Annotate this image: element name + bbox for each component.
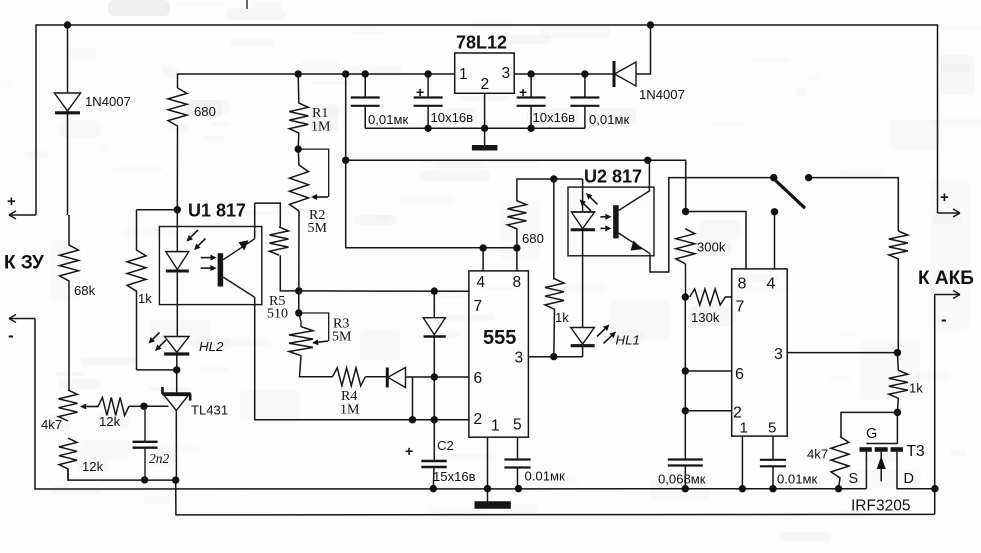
label 12k (99, 414, 121, 429)
pin 5 (768, 420, 776, 437)
diode 1N4007 (right) (614, 25, 651, 87)
svg-text:4: 4 (477, 274, 486, 291)
svg-text:7: 7 (736, 299, 745, 316)
svg-text:510: 510 (267, 307, 288, 322)
svg-text:+: + (519, 84, 527, 100)
label 4k7 (41, 417, 62, 432)
wire (298, 211, 300, 291)
diode (R4 output) (365, 368, 469, 388)
terminal - (K AKB) (935, 291, 960, 330)
svg-text:D: D (904, 471, 914, 487)
capacitor 10x16v (output) (517, 74, 546, 128)
pin 5 (513, 417, 522, 434)
label R1 (311, 106, 331, 135)
svg-text:5: 5 (768, 420, 776, 437)
diode (pins 7-6) (423, 291, 446, 420)
wire (412, 377, 414, 420)
label TL431 (191, 403, 228, 418)
wire (68, 469, 176, 480)
node junction (550, 175, 557, 182)
svg-text:1N4007: 1N4007 (639, 87, 685, 102)
label R4 (340, 389, 360, 418)
resistor (AKB+) (889, 231, 908, 353)
node junction (342, 157, 349, 164)
resistor 12k (vertical) (59, 438, 77, 480)
svg-text:1k: 1k (909, 381, 923, 396)
svg-text:1k: 1k (138, 291, 152, 306)
label 680 (522, 231, 544, 246)
wire (346, 160, 686, 211)
pin 3 (774, 346, 783, 363)
node junction (484, 485, 491, 492)
svg-text:0,01мк: 0,01мк (589, 112, 629, 127)
wire (365, 127, 585, 129)
svg-text:+: + (940, 189, 949, 206)
wire (298, 291, 300, 313)
node junction (682, 293, 689, 300)
svg-text:1N4007: 1N4007 (85, 94, 131, 109)
transistor T3 body arrow (877, 452, 886, 482)
svg-text:5M: 5M (308, 221, 328, 236)
node junction (581, 70, 588, 77)
svg-text:6: 6 (474, 370, 483, 387)
wire (300, 356, 333, 377)
wire (487, 437, 489, 501)
switch lever (775, 180, 806, 209)
label 1k (138, 291, 152, 306)
wire (255, 203, 281, 227)
node junction (424, 125, 431, 132)
node junction (770, 174, 777, 181)
wire (686, 212, 746, 269)
wire (176, 305, 178, 337)
svg-text:3: 3 (502, 65, 511, 82)
svg-text:HL1: HL1 (616, 333, 640, 348)
svg-text:8: 8 (513, 274, 522, 291)
svg-text:S: S (849, 471, 859, 487)
svg-text:7: 7 (474, 298, 483, 315)
svg-text:1: 1 (491, 418, 500, 435)
svg-text:130k: 130k (691, 310, 720, 325)
svg-text:1: 1 (740, 420, 748, 437)
svg-text:12k: 12k (82, 459, 104, 474)
resistor 12k (horizontal) (96, 397, 144, 415)
node junction (513, 244, 520, 251)
regulator 78L12 (455, 53, 515, 93)
wire (514, 73, 614, 75)
shunt reference TL431 (162, 387, 191, 480)
wire (896, 353, 899, 371)
label K ZU (4, 253, 44, 274)
node junction (647, 21, 654, 28)
node junction (362, 70, 369, 77)
svg-text:6: 6 (735, 366, 744, 383)
wire (841, 412, 897, 436)
resistor 1k (U1) (127, 210, 146, 370)
pin 8 (513, 274, 522, 291)
transistor T3 source lead (865, 452, 867, 489)
node junction (141, 476, 148, 483)
svg-text:IRF3205: IRF3205 (851, 498, 910, 515)
node junction (682, 367, 689, 374)
label HL2 (199, 339, 224, 354)
label R5 (267, 294, 288, 322)
wire (787, 352, 897, 354)
ground (472, 145, 498, 151)
label 4k7 (807, 447, 828, 462)
svg-text:1: 1 (459, 66, 468, 83)
LED U2 (571, 179, 595, 231)
svg-text:15х16в: 15х16в (433, 469, 476, 484)
svg-text:T3: T3 (907, 443, 925, 460)
resistor 1k (555 out) (545, 179, 564, 357)
node junction (515, 485, 522, 492)
pin 2 (733, 405, 742, 422)
label R2 (308, 208, 328, 236)
label T3 (907, 443, 925, 460)
label 68k (74, 283, 96, 298)
LED HL2 (164, 337, 189, 370)
resistor 680 (U2) (507, 179, 582, 248)
U1 collector wire (254, 203, 256, 239)
wire (137, 369, 177, 371)
resistor R1 1M (289, 74, 308, 149)
svg-text:3: 3 (774, 346, 783, 363)
resistor R4 1M (333, 368, 366, 386)
terminal + (K ZU) (7, 193, 36, 219)
label 0,01mk (589, 112, 629, 127)
LED U1 (166, 252, 189, 305)
svg-text:78L12: 78L12 (456, 33, 507, 53)
node junction (771, 208, 778, 215)
resistor 4k7 (gate-source) (831, 437, 849, 489)
wire (35, 319, 866, 490)
node junction (431, 287, 438, 294)
U2 phototransistor (616, 191, 650, 254)
wire (137, 209, 178, 211)
transistor T3 channel (860, 447, 903, 452)
U1 light arrows (201, 255, 217, 272)
capacitor C2 15x16v (405, 420, 447, 489)
node junction (172, 476, 179, 483)
optocoupler U2 817 box (568, 187, 654, 256)
resistor 1k (gate) (889, 370, 908, 412)
node junction (479, 244, 486, 251)
svg-text:300k: 300k (697, 240, 726, 255)
pin 1 (459, 66, 468, 83)
svg-text:0,01мк: 0,01мк (368, 112, 408, 127)
wire (67, 25, 69, 93)
node junction (295, 287, 302, 294)
TL431 ref wire (144, 405, 169, 407)
node junction (682, 208, 689, 215)
svg-text:4k7: 4k7 (41, 417, 62, 432)
node junction (481, 125, 488, 132)
diode 1N4007 (left) (54, 93, 80, 215)
node junction (409, 416, 416, 423)
label 10x16v (533, 110, 576, 125)
pin 4 (477, 274, 486, 291)
scan mark (246, 0, 248, 9)
svg-text:10х16в: 10х16в (533, 110, 576, 125)
svg-text:2n2: 2n2 (149, 451, 170, 466)
label 555 (483, 327, 516, 349)
svg-text:0.01мк: 0.01мк (777, 472, 817, 487)
svg-text:HL2: HL2 (199, 339, 224, 354)
wire (774, 212, 776, 269)
svg-text:4k7: 4k7 (807, 447, 828, 462)
node junction (527, 70, 534, 77)
wire (516, 248, 518, 271)
label 1k (909, 381, 923, 396)
svg-text:0,068мк: 0,068мк (658, 472, 706, 487)
svg-text:+: + (7, 193, 16, 210)
pin 6 (735, 366, 744, 383)
label 0.01mk (525, 469, 565, 484)
label 78L12 (456, 33, 507, 53)
wire (176, 370, 178, 392)
label 15x16v (433, 469, 476, 484)
label 130k (691, 310, 720, 325)
wire (741, 436, 743, 489)
label 300k (697, 240, 726, 255)
svg-text:TL431: TL431 (191, 403, 228, 418)
svg-text:4: 4 (767, 276, 776, 293)
terminal + (K AKB) (938, 189, 961, 217)
wire (178, 74, 456, 88)
node junction (835, 485, 842, 492)
pin 2 (474, 411, 483, 428)
svg-text:+: + (405, 443, 413, 459)
node junction (64, 21, 71, 28)
capacitor 0,01mk (output) (570, 74, 599, 128)
svg-text:1M: 1M (311, 120, 331, 135)
node junction (550, 353, 557, 360)
wire (484, 93, 486, 145)
node junction (527, 125, 534, 132)
wire (346, 74, 517, 248)
label 1N4007 (639, 87, 685, 102)
pin 4 (767, 276, 776, 293)
node junction (931, 485, 938, 492)
transistor T3 gate wire (866, 412, 897, 443)
pin 7 (736, 299, 745, 316)
label G (866, 426, 877, 442)
capacitor 0,068mk (668, 460, 703, 489)
svg-text:+: + (416, 84, 424, 100)
label S (849, 471, 859, 487)
svg-text:3: 3 (515, 350, 524, 367)
U1 phototransistor (220, 239, 254, 298)
node junction (342, 70, 349, 77)
label 680 (194, 104, 216, 119)
capacitor 2n2 (133, 406, 158, 480)
label U2 817 (584, 167, 642, 187)
label 1N4007 (85, 94, 131, 109)
svg-text:68k: 68k (74, 283, 96, 298)
node junction (295, 309, 302, 316)
label 10x16v (431, 110, 474, 125)
potentiometer 4k7 (59, 390, 99, 421)
U2 collector wire (648, 160, 650, 191)
label 0.01mk (777, 472, 817, 487)
svg-text:2: 2 (481, 76, 490, 93)
LED HL1 emission arrows (597, 325, 616, 344)
label U1 817 (188, 201, 246, 221)
node junction (424, 70, 431, 77)
wire (176, 480, 935, 515)
LED U1 emission arrows (187, 230, 206, 250)
svg-text:К ЗУ: К ЗУ (4, 253, 44, 274)
U2 light arrows (600, 214, 611, 232)
wire (299, 290, 469, 292)
node junction (295, 145, 302, 152)
wire (685, 370, 731, 372)
LED HL1 (571, 328, 595, 357)
svg-text:10х16в: 10х16в (431, 110, 474, 125)
node junction (173, 366, 180, 373)
potentiometer R3 5M (289, 313, 329, 356)
pin 2 (481, 76, 490, 93)
transistor T3 drain lead (897, 452, 935, 489)
label 2n2 (149, 451, 170, 466)
svg-text:8: 8 (738, 276, 747, 293)
node junction (682, 407, 689, 414)
wire (684, 297, 686, 459)
svg-text:5M: 5M (332, 330, 352, 345)
svg-text:2: 2 (474, 411, 483, 428)
timer 555 box (469, 271, 529, 437)
node junction (805, 174, 812, 181)
pin 7 (474, 298, 483, 315)
node junction (769, 485, 776, 492)
svg-text:5: 5 (513, 417, 522, 434)
label 1k (555, 310, 569, 325)
label HL1 (616, 333, 640, 348)
node junction (431, 373, 438, 380)
label D (904, 471, 914, 487)
svg-text:1k: 1k (555, 310, 569, 325)
svg-text:C2: C2 (437, 438, 454, 453)
wire (482, 248, 484, 271)
label 0,01mk (368, 112, 408, 127)
resistor 680 (left) (168, 88, 187, 210)
capacitor 0,01mk (input) (351, 74, 380, 128)
svg-text:-: - (8, 326, 14, 345)
label IRF3205 (851, 498, 910, 515)
pin 3 (515, 350, 524, 367)
label K AKB (918, 268, 974, 289)
pin 1 (491, 418, 500, 435)
svg-text:555: 555 (483, 327, 516, 349)
svg-text:680: 680 (522, 231, 544, 246)
LED U2 emission arrows (580, 193, 598, 211)
U2 emitter wire (650, 178, 774, 272)
node junction (140, 403, 147, 410)
svg-text:12k: 12k (99, 414, 121, 429)
svg-text:680: 680 (194, 104, 216, 119)
svg-text:-: - (941, 310, 947, 329)
svg-text:1M: 1M (340, 403, 360, 418)
label 12k (82, 459, 104, 474)
node junction (894, 409, 901, 416)
LED HL2 emission arrows (149, 333, 167, 352)
node junction (174, 206, 181, 213)
wire (582, 231, 584, 328)
wire (36, 25, 938, 215)
svg-text:U1 817: U1 817 (188, 201, 246, 221)
label C2 (437, 438, 454, 453)
potentiometer R2 5M (290, 149, 329, 211)
resistor 130k (690, 289, 732, 305)
pin 1 (740, 420, 748, 437)
timer IC2 box (732, 269, 788, 436)
wire (528, 356, 582, 358)
resistor 300k (676, 229, 695, 297)
label R3 (332, 317, 352, 345)
LED U1 anode wire (176, 210, 178, 252)
resistor 68k (60, 215, 79, 390)
node junction (644, 157, 651, 164)
wire (685, 410, 731, 412)
terminal - (K ZU) (8, 315, 35, 346)
node junction (295, 70, 302, 77)
resistor R5 510 (270, 227, 299, 291)
svg-text:U2 817: U2 817 (584, 167, 642, 187)
wire (934, 295, 936, 515)
node junction (431, 416, 438, 423)
svg-text:0.01мк: 0.01мк (525, 469, 565, 484)
pin 8 (738, 276, 747, 293)
wire (255, 297, 469, 419)
ground (475, 501, 511, 509)
label 0,068mk (658, 472, 706, 487)
node junction (682, 485, 689, 492)
capacitor 0.01mk (pin5) (504, 437, 530, 488)
svg-text:G: G (866, 426, 877, 442)
node junction (894, 349, 901, 356)
node junction (739, 485, 746, 492)
svg-text:К АКБ: К АКБ (918, 268, 974, 289)
capacitor 0.01mk (IC2 pin5) (760, 436, 786, 489)
pin 6 (474, 370, 483, 387)
node junction (430, 485, 437, 492)
capacitor 10x16v (input) (414, 74, 443, 128)
optocoupler U1 817 box (159, 227, 261, 305)
wire (809, 178, 899, 231)
pin 3 (502, 65, 511, 82)
